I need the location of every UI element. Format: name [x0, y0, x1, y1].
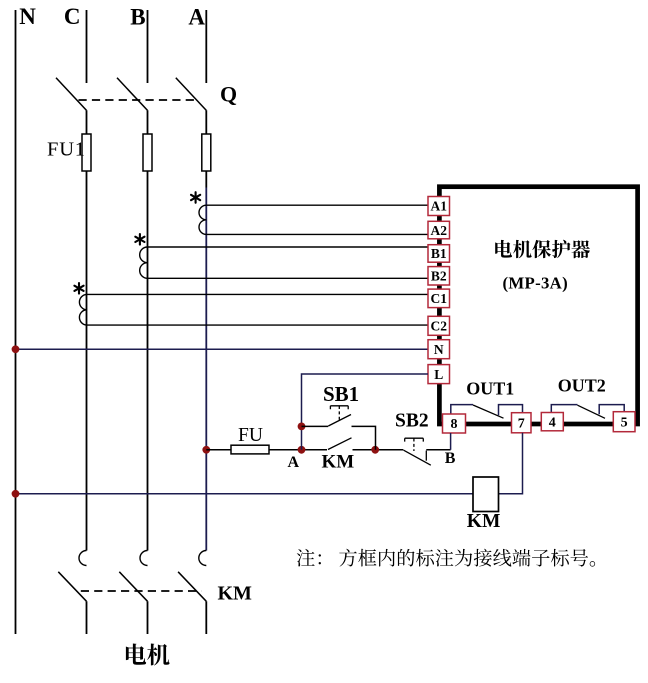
terminal 5: [613, 412, 635, 432]
svg-text:A: A: [288, 454, 300, 471]
contactor KM main contact phase C blade: [58, 572, 86, 602]
wire CT lead A1: [206, 204, 428, 206]
terminal 7: [512, 413, 532, 433]
pushbutton SB2 actuator: [405, 438, 424, 441]
pushbutton SB1 actuator: [330, 406, 348, 409]
terminal L: [428, 365, 450, 384]
OUT2 contact blade: [578, 405, 606, 418]
CT phase B star mark: [139, 234, 141, 245]
contactor KM main contact phase B blade: [119, 572, 147, 602]
terminal B2: [428, 267, 450, 285]
terminal C2: [428, 316, 450, 335]
terminal C1: [428, 289, 450, 308]
svg-text:SB1: SB1: [323, 382, 359, 406]
fuse FU1 pole B: [143, 134, 152, 171]
svg-text:FU: FU: [238, 425, 263, 446]
terminal A2: [428, 221, 450, 239]
junction dot on N line (coil return): [12, 490, 20, 498]
wire N to protector terminal N: [16, 348, 429, 350]
terminal 4: [541, 413, 563, 431]
svg-text:B: B: [445, 450, 456, 467]
wire phase N vertical: [15, 10, 17, 634]
svg-text:C: C: [64, 4, 81, 29]
wire main line right of KM contact: [353, 449, 404, 451]
wire CT lead A2: [206, 233, 428, 235]
svg-text:A1: A1: [431, 199, 448, 214]
wire CT lead C1: [87, 293, 429, 295]
wire phase B vertical segments: [147, 10, 149, 634]
label 电机保护器: [495, 240, 512, 258]
wire N to KM coil (return): [16, 493, 474, 495]
breaker Q pole C blade: [56, 78, 87, 111]
wire CT lead C2: [87, 324, 429, 326]
wire terminal 7 to KM coil: [499, 433, 523, 494]
wire CT lead B2: [148, 277, 429, 279]
svg-text:5: 5: [621, 415, 628, 430]
CT phase A star mark: [195, 192, 197, 203]
breaker Q pole B blade: [117, 78, 148, 111]
pushbutton SB2 fixed contact bar: [425, 451, 427, 461]
pushbutton SB2 blade (NC): [404, 450, 431, 465]
svg-text:7: 7: [518, 416, 525, 431]
svg-text:C1: C1: [431, 291, 448, 306]
svg-text:OUT2: OUT2: [558, 376, 606, 396]
OUT2 contact leads: [551, 405, 624, 415]
svg-text:KM: KM: [322, 451, 355, 472]
svg-text:A: A: [188, 4, 205, 29]
svg-text:L: L: [434, 367, 443, 382]
CT phase C star mark: [78, 283, 80, 294]
contactor KM main contact phase A arc: [199, 551, 206, 566]
svg-text:B2: B2: [431, 269, 447, 284]
svg-text:B: B: [130, 4, 145, 29]
label 电机 (motor): [126, 643, 146, 664]
note text body: [339, 549, 357, 567]
pushbutton SB1 blade: [328, 415, 351, 427]
CT phase B winding bumps: [140, 247, 148, 278]
junction dot on phase A control tap: [202, 446, 210, 454]
terminal B1: [428, 245, 450, 263]
contactor KM main contact phase A blade: [178, 572, 206, 602]
contactor KM linkage dashed: [81, 590, 202, 592]
wire phase A vertical segments (black parts): [205, 10, 207, 634]
svg-text:KM: KM: [218, 583, 253, 605]
CT phase C winding bumps: [79, 294, 86, 325]
svg-text:N: N: [434, 342, 444, 357]
wire control main line left: [206, 449, 231, 451]
svg-text:8: 8: [451, 417, 458, 432]
wire phase A vertical (navy part): [205, 188, 207, 551]
junction dot SB1 branch tap: [298, 423, 306, 431]
CT phase A winding bumps: [199, 205, 206, 234]
wire SB2 to terminal 8: [426, 449, 450, 451]
OUT1 contact leads: [451, 405, 523, 416]
note text 注：: [297, 549, 315, 567]
svg-text:FU1: FU1: [47, 138, 86, 160]
terminal 8: [443, 414, 466, 433]
svg-text:C2: C2: [431, 319, 448, 334]
svg-text:B1: B1: [431, 246, 447, 261]
fuse FU1 pole A: [202, 134, 211, 171]
contactor KM main contact phase C arc: [79, 551, 87, 566]
svg-text:(MP-3A): (MP-3A): [503, 274, 568, 293]
OUT1 contact blade: [473, 405, 504, 418]
svg-text:4: 4: [549, 415, 556, 430]
contactor coil KM: [473, 477, 499, 512]
wire L terminal to control (navy): [302, 374, 429, 450]
terminal A1: [428, 197, 450, 216]
svg-text:N: N: [19, 4, 36, 29]
pushbutton SB1 branch wires: [302, 426, 376, 449]
wire CT lead B1: [148, 246, 429, 248]
terminal N: [428, 340, 450, 359]
svg-text:SB2: SB2: [395, 411, 429, 432]
svg-text:KM: KM: [467, 511, 501, 532]
svg-text:A2: A2: [431, 223, 448, 238]
contact KM auxiliary (hold-in) blade: [328, 438, 352, 450]
breaker Q linkage dashed: [79, 99, 200, 101]
fuse FU: [231, 445, 269, 454]
junction dot SB1 branch rejoin: [371, 446, 379, 454]
fuse FU1 pole C: [82, 134, 91, 171]
junction dot node A (L branch meets main): [298, 446, 306, 454]
protector box outline (MP-3A unit): [439, 187, 637, 424]
svg-text:Q: Q: [220, 82, 237, 107]
contactor KM main contact phase B arc: [140, 551, 147, 566]
junction dot on N line (N wire): [12, 345, 20, 353]
breaker Q pole A blade: [176, 78, 207, 111]
svg-text:OUT1: OUT1: [466, 378, 514, 398]
wire phase C vertical segments: [86, 10, 88, 634]
